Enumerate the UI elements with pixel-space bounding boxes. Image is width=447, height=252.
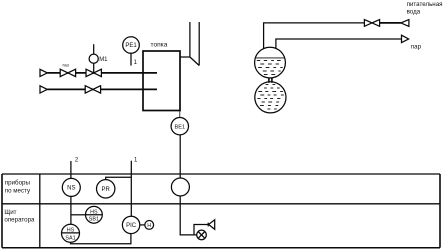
wire gas pipe top (47, 72, 157, 74)
wire actuator stem lower (93, 63, 95, 73)
svg-text:пар: пар (411, 43, 422, 50)
wire gas pipe bottom (47, 88, 157, 90)
wire furnace to BE1 (179, 111, 181, 118)
feed water thick segment (380, 22, 401, 24)
svg-text:SB1: SB1 (89, 217, 99, 223)
lamp alarm (197, 230, 207, 240)
table border top (2, 173, 440, 175)
wire steam out pipe (276, 39, 402, 49)
furnace топка (143, 51, 180, 111)
instrument PR (97, 180, 115, 198)
drum neck (269, 78, 272, 83)
wire 1 into PIC (130, 161, 132, 217)
water dashes upper drum (257, 61, 283, 75)
valve V3 manual bottom (85, 86, 100, 93)
svg-text:2: 2 (75, 158, 79, 164)
svg-text:питательная: питательная (407, 1, 443, 8)
gas inlet arrow top pipe (40, 69, 47, 76)
svg-text:1: 1 (134, 158, 138, 164)
switch HS SA1 (62, 224, 80, 242)
valve V2 control gas (86, 69, 101, 76)
local instrument circle (171, 178, 189, 196)
svg-text:H: H (147, 223, 151, 229)
table border right (439, 174, 441, 248)
indicator H (145, 221, 154, 230)
wire branch to SB1 (71, 214, 86, 216)
sensor BE1 (171, 118, 188, 135)
wire PR branch (106, 177, 132, 179)
boiler drum lower (255, 82, 286, 113)
feed water inlet arrow (401, 20, 409, 27)
svg-text:топка: топка (151, 42, 168, 49)
instrument NS (62, 178, 80, 196)
horn alarm (208, 220, 215, 230)
wire alarm branch up (194, 225, 208, 235)
svg-text:PIC: PIC (126, 223, 137, 229)
boiler drum upper (255, 47, 286, 78)
svg-text:вода: вода (407, 9, 421, 16)
svg-text:BE1: BE1 (175, 124, 186, 130)
table border bottom (2, 247, 440, 249)
gas inlet arrow bottom pipe (40, 86, 47, 93)
svg-text:1: 1 (134, 60, 138, 66)
table row divider (2, 203, 440, 205)
wire PIC to H (140, 224, 145, 226)
valve V1 manual gas (60, 69, 75, 76)
table border left (1, 174, 3, 248)
svg-text:по месту: по месту (5, 188, 31, 195)
valve V4 feed water (364, 20, 379, 27)
wire actuator stem upper (93, 44, 95, 54)
wire 2 into NS (70, 161, 72, 178)
wire to alarm devices (180, 196, 197, 235)
table column divider (39, 174, 41, 248)
svg-text:PE1: PE1 (125, 43, 137, 49)
svg-text:HS: HS (67, 227, 75, 233)
svg-text:HS: HS (90, 209, 98, 215)
svg-text:SA1: SA1 (65, 235, 75, 241)
svg-text:PR: PR (102, 187, 111, 193)
svg-text:газ: газ (63, 62, 69, 67)
wire feed water down pipe (264, 23, 401, 49)
sensor PE1 (123, 37, 140, 54)
wire PE1 signal stem (130, 53, 132, 65)
actuator M1 (89, 54, 98, 63)
chimney duct (180, 22, 199, 66)
svg-text:NS: NS (67, 186, 75, 192)
switch HS SB1 (86, 206, 103, 223)
svg-text:оператора: оператора (4, 217, 35, 224)
wire SA1 to PIC bottom (71, 234, 131, 244)
controller PIC (122, 216, 139, 233)
svg-text:Щит: Щит (4, 209, 16, 216)
steam outlet arrow (402, 35, 409, 42)
water dashes lower drum (257, 85, 283, 110)
wire NS down (70, 196, 72, 224)
svg-text:M1: M1 (99, 57, 108, 63)
water level line (255, 57, 285, 59)
wire BE1 to local instrument (179, 135, 181, 178)
svg-text:приборы: приборы (5, 180, 31, 187)
